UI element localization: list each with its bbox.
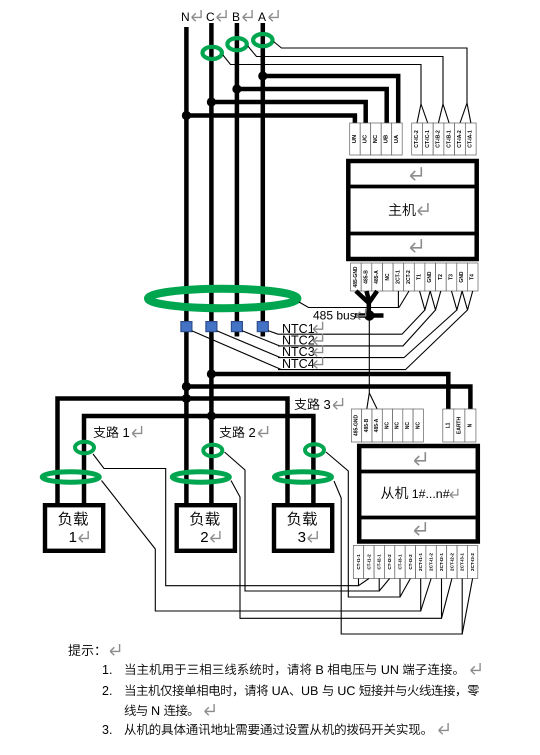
svg-text:NC: NC <box>373 134 379 143</box>
wire B square to NTC2 <box>242 331 279 346</box>
svg-text:485-A: 485-A <box>374 418 380 432</box>
wire branch live row <box>84 416 313 503</box>
svg-text:2: 2 <box>200 529 208 546</box>
svg-text:NC: NC <box>385 273 391 281</box>
terminal 485-GND <box>351 409 361 442</box>
load box 负载1 <box>45 505 103 551</box>
svg-text:3: 3 <box>324 397 331 412</box>
wire branch3 big CT to 2CT-I3 <box>334 481 462 634</box>
CT ring branch 1 small <box>75 442 94 454</box>
CT ring on phase B <box>227 38 246 50</box>
terminal CT-IC-1 <box>422 123 433 155</box>
svg-text:CT-I1-1: CT-I1-1 <box>356 554 361 570</box>
terminal T3 <box>446 263 457 291</box>
node junction C row1 <box>207 369 216 378</box>
svg-text:2CT-I1-1: 2CT-I1-1 <box>418 553 423 571</box>
terminal 2CT-I1-1 <box>416 546 426 579</box>
svg-text:CT-IA-2: CT-IA-2 <box>457 130 463 148</box>
svg-text:3.: 3. <box>102 723 112 737</box>
wire A square to NTC1 <box>268 331 278 335</box>
node junction C row4 <box>207 411 216 420</box>
svg-text:GND: GND <box>459 271 465 283</box>
terminal GND <box>457 263 468 291</box>
note item line y=734 <box>102 723 448 737</box>
CT ring branch 3 small <box>305 444 324 456</box>
wire branch1 small CT to CT-I1 <box>93 454 359 586</box>
svg-text:B: B <box>232 10 240 24</box>
note title 提示 <box>68 644 119 656</box>
svg-text:2CT-I3-2: 2CT-I3-2 <box>470 553 475 571</box>
CT ring branch 1 big <box>42 472 99 482</box>
wire N square to NTC4 <box>192 331 282 370</box>
svg-text:3: 3 <box>298 529 306 546</box>
svg-text:NC: NC <box>405 422 411 430</box>
svg-text:CT-IA-1: CT-IA-1 <box>468 130 474 148</box>
CT ring branch 2 small <box>203 445 222 457</box>
terminal CT-I1-2 <box>364 546 374 579</box>
terminal CT-I3-2 <box>405 546 415 579</box>
label NTC1 <box>282 322 323 336</box>
svg-text:CT-IB-2: CT-IB-2 <box>436 130 442 148</box>
svg-text:T4: T4 <box>470 274 476 280</box>
terminal 485-B <box>362 409 372 442</box>
node B label <box>232 10 252 24</box>
label 支路3 <box>295 397 343 412</box>
svg-text:CT-I3-2: CT-I3-2 <box>408 554 413 570</box>
svg-text:NC: NC <box>384 422 390 430</box>
svg-text:2CT-2: 2CT-2 <box>406 270 412 284</box>
terminal UB <box>381 123 392 155</box>
wire A to UA <box>263 76 398 123</box>
terminal 485-GND <box>351 263 362 291</box>
wire branch2 big CT to 2CT-I2 <box>231 481 442 619</box>
svg-text:485 bus: 485 bus <box>313 309 356 323</box>
terminal UC <box>360 123 371 155</box>
label 支路2 <box>220 425 268 440</box>
label NTC3 <box>282 345 323 359</box>
svg-text:CT-IB-1: CT-IB-1 <box>446 130 452 148</box>
terminal CT-I2-2 <box>384 546 394 579</box>
wire phase A vertical <box>261 23 266 336</box>
terminal CT-IA-2 <box>455 123 466 155</box>
label 支路1 <box>94 425 142 440</box>
wire N to UN <box>186 116 355 124</box>
CT ring on phase A <box>253 34 272 46</box>
terminal NC <box>371 123 382 155</box>
node junction N <box>182 111 191 120</box>
label 485 bus <box>313 309 366 323</box>
NTC sensor square on line C <box>206 322 217 332</box>
wire NTC2 line <box>278 291 436 346</box>
wire 485 bus bar <box>355 313 384 318</box>
svg-text:UN: UN <box>352 135 358 143</box>
terminal UN <box>350 123 361 155</box>
terminal 485-A <box>372 263 383 291</box>
terminal 2CT-I2-1 <box>436 546 446 579</box>
wire 2CT to 2CT-1/2CT-2 terminals <box>299 291 398 308</box>
wire B to UB <box>237 89 387 123</box>
terminal 2CT-I3-2 <box>467 546 477 579</box>
terminal CT-IC-2 <box>412 123 423 155</box>
wire CT-B to CT-IB terminals <box>248 46 443 123</box>
terminal NC <box>393 409 403 442</box>
main unit box 主机 <box>348 161 476 259</box>
wire C square to NTC3 <box>217 331 281 358</box>
svg-text:UB: UB <box>383 135 389 143</box>
wire branch1 big CT to 2CT-I1 <box>102 481 421 612</box>
load box 负载2 <box>177 505 235 551</box>
svg-text:NC: NC <box>395 422 401 430</box>
svg-text:T1: T1 <box>417 274 423 280</box>
terminal T1 <box>414 263 425 291</box>
terminal 2CT-2 <box>404 263 415 291</box>
terminal CT-I2-1 <box>374 546 384 579</box>
terminal NC <box>413 409 423 442</box>
wire C to slave L1 <box>211 374 448 409</box>
terminal N <box>465 409 476 442</box>
CT ring branch 3 big <box>275 472 332 482</box>
node junction A <box>258 71 267 80</box>
note item line y=674 <box>102 663 480 677</box>
svg-text:485-B: 485-B <box>364 270 370 284</box>
terminal 2CT-1 <box>393 263 404 291</box>
NTC sensor square on line A <box>257 322 268 332</box>
wire stub below B square <box>235 331 240 337</box>
node junction N row2 <box>182 382 191 391</box>
svg-text:A: A <box>258 10 266 24</box>
terminal NC <box>382 409 392 442</box>
CT ring total 2CT around all phases <box>148 289 297 308</box>
wire 485 Y from main unit <box>356 291 369 318</box>
svg-text:C: C <box>206 10 215 24</box>
terminal L1 <box>443 409 454 442</box>
svg-text:2.: 2. <box>102 684 112 698</box>
load box 负载3 <box>274 505 332 551</box>
terminal CT-IA-1 <box>465 123 476 155</box>
wire N to slave N <box>186 387 470 410</box>
wire branch neutral row <box>58 399 288 504</box>
svg-text:485-GND: 485-GND <box>354 415 360 437</box>
svg-text:CT-I2-1: CT-I2-1 <box>377 554 382 570</box>
svg-text:2CT-I3-1: 2CT-I3-1 <box>460 553 465 571</box>
svg-text:CT-I2-2: CT-I2-2 <box>387 554 392 570</box>
svg-text:N: N <box>467 423 473 427</box>
wire CT-C to CT-IC terminals <box>223 55 421 123</box>
wire NTC4 line <box>278 291 468 370</box>
svg-text:T3: T3 <box>449 274 455 280</box>
node N label <box>181 10 201 24</box>
svg-text:2: 2 <box>249 425 256 440</box>
svg-text:1: 1 <box>123 425 130 440</box>
wire C to UC <box>211 102 365 123</box>
svg-text:CT-IC-1: CT-IC-1 <box>425 130 431 148</box>
node C label <box>206 10 226 24</box>
svg-text:485-A: 485-A <box>374 270 380 284</box>
wire CT-A to CT-IA terminals <box>274 42 468 124</box>
svg-text:CT-I3-1: CT-I3-1 <box>398 554 403 570</box>
terminal EARTH <box>454 409 465 442</box>
wire NTC1 line <box>278 291 425 334</box>
wire branch3 small CT to CT-I3 <box>326 452 400 597</box>
terminal T2 <box>436 263 447 291</box>
svg-text:1#...n#: 1#...n# <box>412 487 450 501</box>
svg-text:2CT-I1-2: 2CT-I1-2 <box>429 553 434 571</box>
terminal CT-I1-1 <box>353 546 363 579</box>
terminal CT-IB-1 <box>444 123 455 155</box>
svg-text:1.: 1. <box>102 663 112 677</box>
NTC sensor square on line N <box>181 322 192 332</box>
terminal UA <box>392 123 403 155</box>
wire branch2 small CT to CT-I2 <box>225 452 380 591</box>
slave unit box 从机 <box>359 446 478 542</box>
svg-text:UA: UA <box>394 134 400 143</box>
svg-text:2CT-I2-1: 2CT-I2-1 <box>439 553 444 571</box>
svg-text:1: 1 <box>69 529 77 546</box>
wire phase N vertical <box>184 27 189 505</box>
svg-text:2CT-I2-2: 2CT-I2-2 <box>449 553 454 571</box>
svg-text:L1: L1 <box>445 422 451 428</box>
svg-text:T2: T2 <box>438 274 444 280</box>
wire NTC3 line <box>278 291 457 358</box>
terminal 2CT-I2-2 <box>447 546 457 579</box>
terminal CT-I3-1 <box>395 546 405 579</box>
node junction C <box>207 97 216 106</box>
svg-text:GND: GND <box>427 271 433 283</box>
node junction N row3 <box>182 394 191 403</box>
terminal 485-A <box>372 409 382 442</box>
svg-text:NC: NC <box>415 422 421 430</box>
terminal CT-IB-2 <box>433 123 444 155</box>
label NTC2 <box>282 334 323 348</box>
svg-text:N: N <box>181 10 190 24</box>
node junction B <box>232 84 241 93</box>
node 485 bus junction <box>364 310 374 320</box>
svg-text:2CT-1: 2CT-1 <box>395 270 401 284</box>
terminal NC <box>383 263 394 291</box>
terminal T4 <box>467 263 478 291</box>
label NTC4 <box>282 357 323 371</box>
svg-text:485-GND: 485-GND <box>353 266 359 288</box>
CT ring on phase C <box>203 47 222 59</box>
svg-text:485-B: 485-B <box>364 418 370 432</box>
wire 485 bus to slave unit <box>367 320 370 409</box>
wire phase B vertical <box>235 23 240 336</box>
terminal 2CT-I1-2 <box>426 546 436 579</box>
terminal 2CT-I3-1 <box>457 546 467 579</box>
note item line y=695 <box>102 684 479 698</box>
wire stub below A square <box>261 331 266 337</box>
svg-text:CT-I1-2: CT-I1-2 <box>366 554 371 570</box>
svg-text:CT-IC-2: CT-IC-2 <box>414 130 420 148</box>
svg-text:UC: UC <box>362 134 368 143</box>
terminal GND <box>425 263 436 291</box>
CT ring branch 2 big <box>172 472 229 482</box>
node A label <box>258 10 278 24</box>
NTC sensor square on line B <box>231 322 242 332</box>
terminal 485-B <box>361 263 372 291</box>
wire phase C vertical <box>209 23 214 505</box>
note item line y=715 <box>125 704 215 716</box>
terminal NC <box>403 409 413 442</box>
svg-text:EARTH: EARTH <box>456 417 462 435</box>
